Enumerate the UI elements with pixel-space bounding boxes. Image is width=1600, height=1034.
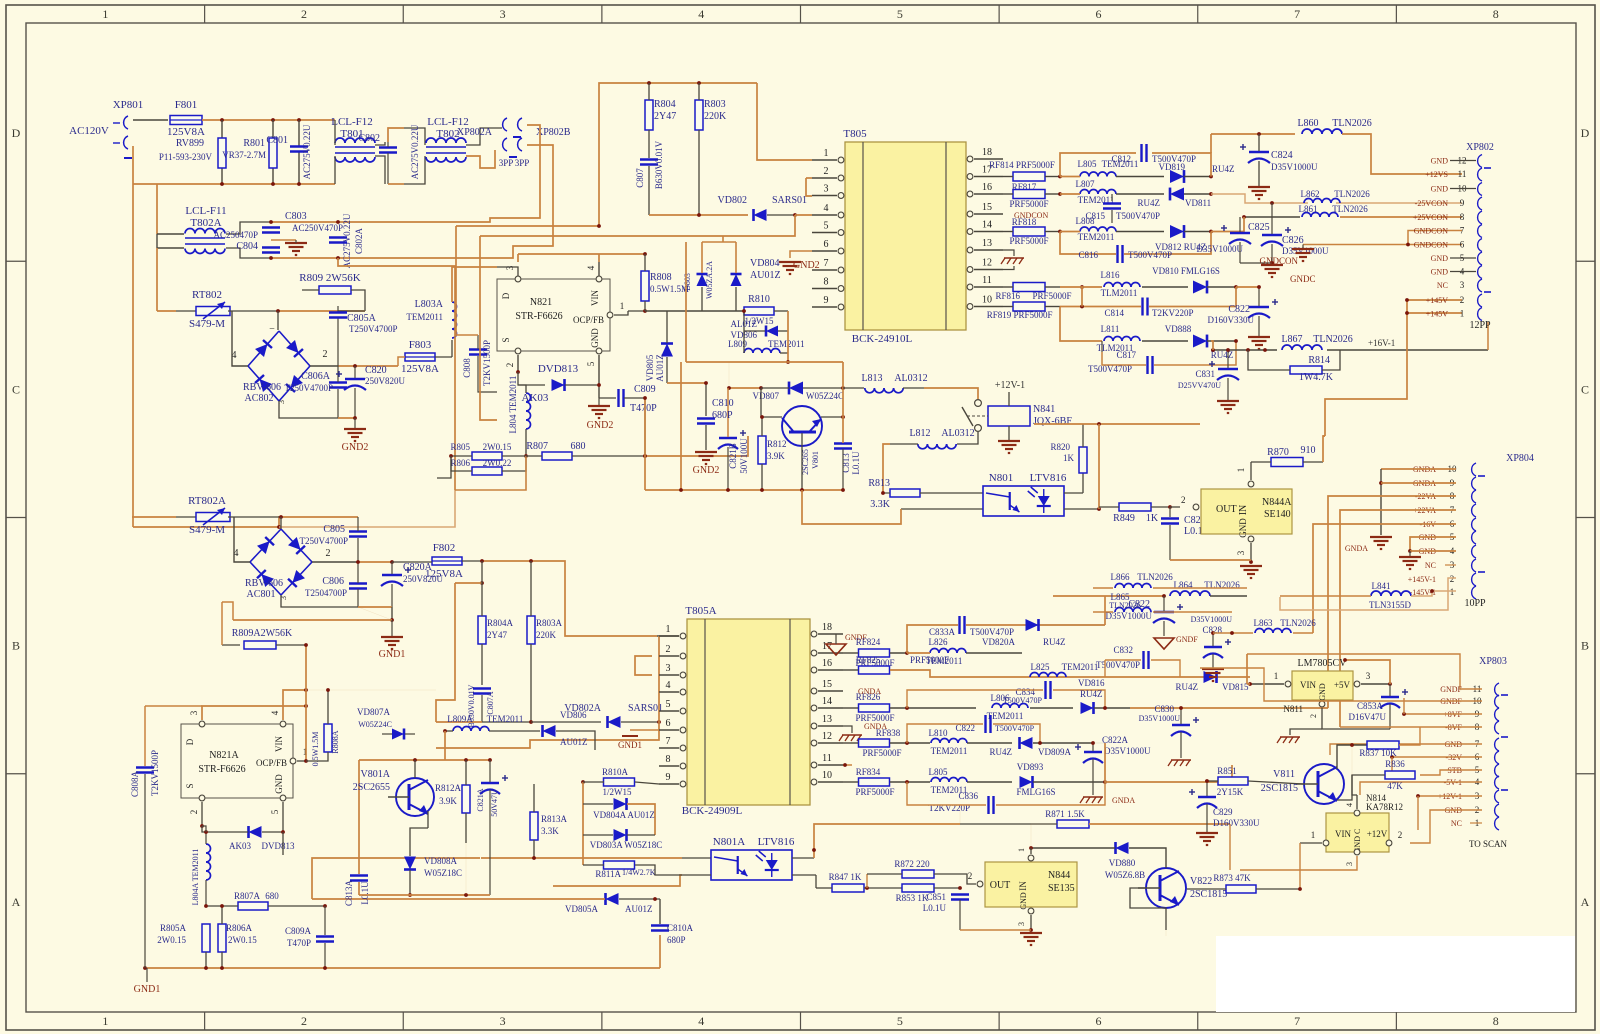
svg-text:D: D bbox=[1581, 126, 1590, 140]
svg-text:T500V470P: T500V470P bbox=[1128, 250, 1172, 260]
svg-text:VD802: VD802 bbox=[718, 195, 747, 206]
svg-text:OUT: OUT bbox=[990, 880, 1011, 891]
wire bbox=[1361, 682, 1392, 686]
junction bbox=[1080, 285, 1084, 289]
inductor L807 bbox=[1060, 179, 1164, 205]
svg-text:RU4Z: RU4Z bbox=[1212, 164, 1235, 174]
capacitor C808 bbox=[455, 335, 497, 392]
svg-text:PRF5000F: PRF5000F bbox=[1009, 236, 1048, 246]
wire bbox=[283, 688, 308, 720]
ground bbox=[285, 240, 307, 255]
svg-text:TEM2011: TEM2011 bbox=[508, 376, 518, 413]
svg-text:VD888: VD888 bbox=[1165, 324, 1192, 334]
wire bbox=[133, 119, 168, 121]
svg-text:V801: V801 bbox=[811, 451, 820, 469]
svg-text:GND2: GND2 bbox=[342, 442, 369, 453]
wire bbox=[277, 311, 279, 330]
svg-text:2: 2 bbox=[505, 363, 515, 368]
svg-text:N844: N844 bbox=[1048, 870, 1070, 881]
wire bbox=[234, 517, 250, 562]
wire bbox=[645, 310, 744, 312]
svg-text:LM7805CV: LM7805CV bbox=[1298, 658, 1348, 669]
svg-text:VD804: VD804 bbox=[750, 258, 779, 269]
svg-text:XP801: XP801 bbox=[113, 99, 144, 111]
svg-text:16: 16 bbox=[822, 658, 832, 669]
svg-text:6: 6 bbox=[1095, 7, 1101, 21]
junction bbox=[279, 515, 283, 519]
svg-text:R804: R804 bbox=[654, 99, 676, 110]
diode VD804A bbox=[583, 798, 655, 835]
svg-text:L863: L863 bbox=[1254, 618, 1273, 628]
diode VD893 bbox=[1016, 762, 1106, 797]
wire bbox=[1323, 436, 1325, 462]
inductor L805A bbox=[929, 767, 1013, 795]
diode VD811 bbox=[1138, 188, 1212, 208]
svg-text:8: 8 bbox=[824, 277, 829, 288]
wire bbox=[702, 236, 736, 242]
transistor V822 bbox=[1138, 868, 1227, 908]
svg-text:L805: L805 bbox=[929, 767, 948, 777]
resistor R809A bbox=[222, 628, 308, 649]
svg-text:AU01Z: AU01Z bbox=[625, 904, 653, 914]
svg-text:2W0.15: 2W0.15 bbox=[157, 935, 186, 945]
resistor R811A bbox=[583, 861, 682, 879]
junction bbox=[269, 220, 340, 260]
junction bbox=[597, 224, 601, 228]
svg-text:AU01Z: AU01Z bbox=[560, 737, 588, 747]
svg-text:5: 5 bbox=[897, 7, 903, 21]
wire bbox=[1351, 745, 1353, 775]
svg-text:GND: GND bbox=[1238, 518, 1248, 538]
svg-text:3: 3 bbox=[1236, 550, 1246, 555]
svg-text:T2KV1500P: T2KV1500P bbox=[150, 750, 160, 796]
svg-text:13: 13 bbox=[982, 238, 992, 249]
varistor RV899 bbox=[159, 138, 226, 168]
svg-text:R806A: R806A bbox=[226, 923, 253, 933]
ground GND2 bbox=[693, 452, 720, 476]
wire bbox=[1277, 708, 1390, 743]
svg-text:4: 4 bbox=[666, 680, 671, 691]
junction bbox=[220, 182, 301, 186]
svg-text:D160V330U: D160V330U bbox=[1213, 818, 1260, 828]
svg-text:PRF5000F: PRF5000F bbox=[855, 787, 894, 797]
wire bbox=[1340, 510, 1456, 727]
svg-text:1: 1 bbox=[620, 301, 625, 311]
wire bbox=[1200, 668, 1482, 701]
wire bbox=[802, 490, 983, 524]
capacitor C801 bbox=[266, 124, 312, 179]
wire bbox=[1210, 134, 1212, 153]
svg-text:OCP/FB: OCP/FB bbox=[256, 758, 287, 768]
capacitor C806 bbox=[305, 562, 367, 607]
svg-text:R870: R870 bbox=[1267, 447, 1289, 458]
svg-text:XP802B: XP802B bbox=[536, 127, 571, 138]
svg-text:L805: L805 bbox=[1078, 159, 1097, 169]
junction bbox=[1234, 285, 1238, 289]
svg-text:2SC2655: 2SC2655 bbox=[353, 782, 390, 793]
resistor R870 bbox=[1251, 445, 1323, 467]
junction bbox=[277, 525, 281, 529]
svg-text:GNDA: GNDA bbox=[858, 687, 881, 696]
svg-text:RF824: RF824 bbox=[856, 637, 881, 647]
wire bbox=[1130, 707, 1328, 709]
wire bbox=[598, 355, 600, 398]
wire bbox=[157, 310, 198, 312]
wire bbox=[816, 874, 867, 888]
svg-text:S: S bbox=[185, 783, 195, 788]
svg-text:GND: GND bbox=[590, 328, 600, 348]
junction bbox=[742, 309, 746, 313]
svg-text:PRF5000F: PRF5000F bbox=[910, 655, 949, 665]
resistor R808A bbox=[306, 688, 340, 766]
inductor L865 bbox=[1093, 592, 1232, 612]
svg-text:LCL-F11: LCL-F11 bbox=[185, 205, 226, 217]
svg-text:TLN2026: TLN2026 bbox=[1109, 601, 1141, 610]
svg-text:SE135: SE135 bbox=[1048, 883, 1075, 894]
wire bbox=[452, 267, 518, 302]
svg-text:R801: R801 bbox=[243, 138, 265, 149]
svg-text:VD804A AU01Z: VD804A AU01Z bbox=[593, 810, 655, 820]
label GNDA pin15 bbox=[858, 687, 881, 696]
inductor L812 bbox=[883, 428, 978, 493]
svg-text:2: 2 bbox=[301, 1014, 307, 1028]
wire bbox=[1098, 424, 1100, 509]
wire bbox=[232, 311, 248, 366]
resistor R805A bbox=[157, 923, 210, 968]
resistor R849 bbox=[1099, 503, 1170, 524]
label GNDCON pin15 bbox=[1014, 211, 1048, 220]
svg-text:N821A: N821A bbox=[209, 750, 239, 761]
wire bbox=[133, 516, 279, 527]
svg-text:N811: N811 bbox=[1283, 704, 1303, 714]
svg-text:14: 14 bbox=[982, 220, 992, 231]
wire bbox=[1337, 743, 1367, 769]
junction bbox=[204, 904, 327, 908]
svg-text:15: 15 bbox=[822, 679, 832, 690]
resistor R806 bbox=[450, 456, 526, 475]
cap C829 bbox=[1189, 779, 1260, 845]
svg-text:PRF5000F: PRF5000F bbox=[862, 748, 901, 758]
svg-text:PRF5000F: PRF5000F bbox=[1013, 310, 1052, 320]
wire R809A right bbox=[305, 645, 307, 690]
svg-text:17: 17 bbox=[822, 641, 832, 652]
capacitor C813 bbox=[834, 362, 861, 490]
svg-text:IN: IN bbox=[1238, 505, 1249, 516]
svg-text:3: 3 bbox=[824, 184, 829, 195]
junction bbox=[449, 454, 453, 458]
svg-text:C822: C822 bbox=[1228, 304, 1250, 315]
capacitor C803 bbox=[262, 211, 343, 233]
resistor R836 bbox=[1337, 759, 1415, 800]
svg-text:C808: C808 bbox=[462, 358, 472, 378]
svg-text:D35V1000U: D35V1000U bbox=[1271, 162, 1318, 172]
capacitor C810 bbox=[697, 383, 734, 450]
svg-text:C833A: C833A bbox=[929, 627, 956, 637]
wire bbox=[482, 720, 601, 724]
svg-text:RF816: RF816 bbox=[995, 291, 1020, 301]
resistor R812A bbox=[435, 760, 470, 843]
svg-text:C853A: C853A bbox=[1357, 701, 1384, 711]
resistor R809 bbox=[299, 272, 365, 311]
ground GND2 bbox=[587, 398, 614, 431]
diode VD888 bbox=[1165, 324, 1236, 360]
svg-text:R836: R836 bbox=[1385, 759, 1405, 769]
resistor R812 bbox=[758, 415, 787, 490]
svg-text:RF819: RF819 bbox=[987, 310, 1012, 320]
svg-text:AL01Z: AL01Z bbox=[731, 319, 758, 329]
inductor L841 bbox=[1280, 581, 1456, 610]
resistor RF819 bbox=[987, 302, 1060, 320]
svg-text:RT802A: RT802A bbox=[188, 495, 226, 507]
IC N821 STR-F6626 bbox=[497, 265, 624, 367]
svg-text:C808A: C808A bbox=[130, 771, 140, 798]
svg-text:SE140: SE140 bbox=[1264, 509, 1291, 520]
svg-text:50V47U: 50V47U bbox=[490, 789, 499, 817]
svg-text:1K: 1K bbox=[1146, 513, 1159, 524]
svg-text:OCP/FB: OCP/FB bbox=[573, 315, 604, 325]
svg-text:B: B bbox=[1581, 639, 1589, 653]
svg-text:L0.1U: L0.1U bbox=[923, 903, 947, 913]
resistor RF824 bbox=[843, 637, 909, 668]
svg-text:SARS01: SARS01 bbox=[628, 703, 663, 714]
svg-text:1: 1 bbox=[1450, 587, 1455, 597]
svg-text:7: 7 bbox=[824, 258, 829, 269]
cap C820A polarized bbox=[381, 562, 443, 620]
wire bbox=[338, 125, 540, 222]
svg-text:2: 2 bbox=[824, 166, 829, 177]
wire bbox=[1381, 482, 1456, 484]
svg-text:8: 8 bbox=[1493, 1014, 1499, 1028]
diode VD880 bbox=[1029, 842, 1166, 880]
svg-text:PRF5000F: PRF5000F bbox=[1032, 291, 1071, 301]
wire bbox=[312, 561, 392, 563]
wire bbox=[338, 258, 455, 286]
wire bottom bus bbox=[133, 183, 335, 185]
wire bbox=[202, 704, 308, 720]
svg-text:VR37-2.7M: VR37-2.7M bbox=[222, 150, 266, 160]
wire bbox=[792, 824, 960, 858]
capacitor C808A bbox=[130, 706, 202, 826]
svg-text:TEM2011: TEM2011 bbox=[987, 711, 1024, 721]
svg-text:TLN2026: TLN2026 bbox=[1332, 118, 1371, 129]
svg-text:D35V1000U: D35V1000U bbox=[1197, 244, 1244, 254]
wire bbox=[466, 128, 502, 145]
wire bbox=[480, 215, 795, 236]
wire bbox=[222, 602, 233, 645]
svg-text:T500V470P: T500V470P bbox=[970, 627, 1014, 637]
capacitor C822y bbox=[1106, 596, 1184, 636]
svg-text:AC250470P: AC250470P bbox=[213, 230, 258, 240]
svg-text:W05Z24C: W05Z24C bbox=[358, 720, 392, 729]
svg-text:R871 1.5K: R871 1.5K bbox=[1045, 809, 1085, 819]
choke T802A LCL-F11 bbox=[185, 205, 227, 254]
capacitor C830 bbox=[1139, 704, 1199, 766]
svg-text:D: D bbox=[12, 126, 21, 140]
wire bbox=[659, 935, 661, 968]
svg-text:T805: T805 bbox=[843, 128, 867, 140]
svg-text:GNDCON: GNDCON bbox=[1414, 241, 1448, 250]
junction bbox=[697, 213, 701, 217]
svg-text:3: 3 bbox=[505, 265, 515, 270]
svg-text:RF834: RF834 bbox=[856, 767, 881, 777]
wire bbox=[226, 248, 338, 258]
wire bbox=[228, 310, 365, 312]
junction bbox=[1242, 201, 1274, 219]
svg-text:XP802: XP802 bbox=[1466, 142, 1494, 153]
wire bbox=[466, 150, 495, 168]
svg-text:R812: R812 bbox=[767, 439, 787, 449]
wire bbox=[1420, 770, 1482, 775]
wire bbox=[437, 456, 451, 478]
svg-text:L804A TEM2011: L804A TEM2011 bbox=[191, 849, 200, 906]
wire bbox=[960, 930, 1042, 945]
svg-text:C802A: C802A bbox=[354, 228, 364, 255]
svg-text:RV899: RV899 bbox=[176, 138, 204, 149]
diode VD803 bbox=[683, 242, 714, 311]
wire pin1 bbox=[658, 635, 660, 637]
wire bbox=[298, 120, 300, 184]
capacitor C822A bbox=[1075, 735, 1151, 795]
svg-text:D: D bbox=[185, 738, 195, 745]
svg-text:2W0.15: 2W0.15 bbox=[483, 442, 512, 452]
diode VD809A bbox=[990, 737, 1094, 757]
wire bbox=[582, 782, 584, 865]
junction bbox=[480, 559, 533, 585]
svg-text:TLN2026: TLN2026 bbox=[1332, 204, 1368, 214]
svg-text:R853 1K: R853 1K bbox=[896, 893, 929, 903]
svg-text:4: 4 bbox=[698, 1014, 704, 1028]
svg-text:1: 1 bbox=[1460, 309, 1465, 319]
svg-text:XP804: XP804 bbox=[1506, 453, 1534, 464]
svg-text:VD807: VD807 bbox=[753, 391, 780, 401]
wire bbox=[1247, 654, 1460, 689]
wire bbox=[1130, 888, 1166, 930]
diode VD810 bbox=[1152, 266, 1236, 293]
ground GND2 bbox=[779, 251, 820, 274]
svg-text:VD810 FMLG16S: VD810 FMLG16S bbox=[1152, 266, 1220, 276]
svg-text:250V820U: 250V820U bbox=[365, 376, 405, 386]
ground GNDA pin13 bbox=[839, 722, 887, 741]
junction bbox=[1209, 175, 1213, 179]
svg-text:T250V4700P: T250V4700P bbox=[349, 324, 398, 334]
resistor R808 bbox=[641, 254, 689, 311]
wire brown row bbox=[553, 875, 711, 886]
capacitor C806A bbox=[284, 366, 347, 402]
junction bbox=[1211, 348, 1267, 352]
svg-text:C: C bbox=[1581, 382, 1589, 396]
wire bbox=[455, 456, 526, 490]
svg-text:GND: GND bbox=[1019, 892, 1028, 910]
svg-text:TLN2026: TLN2026 bbox=[1280, 618, 1316, 628]
svg-text:L866: L866 bbox=[1111, 572, 1130, 582]
svg-text:2Y47: 2Y47 bbox=[487, 630, 507, 640]
svg-text:L0.1U: L0.1U bbox=[851, 451, 861, 475]
svg-text:VD816: VD816 bbox=[1078, 678, 1105, 688]
svg-text:4: 4 bbox=[270, 710, 280, 715]
wire bbox=[1330, 744, 1482, 755]
wire bbox=[1034, 423, 1200, 425]
svg-text:C810A: C810A bbox=[667, 923, 694, 933]
svg-text:L816: L816 bbox=[1101, 270, 1120, 280]
diode VD816 bbox=[1078, 678, 1130, 714]
svg-text:GND: GND bbox=[1431, 268, 1449, 277]
resistor R873 bbox=[1187, 873, 1302, 893]
svg-text:D35V1000U: D35V1000U bbox=[1282, 246, 1329, 256]
resistor RF817 bbox=[989, 160, 1060, 192]
svg-text:C851: C851 bbox=[926, 892, 946, 902]
resistor RF818 bbox=[1003, 217, 1060, 246]
svg-text:13: 13 bbox=[822, 714, 832, 725]
wire bbox=[228, 516, 358, 518]
resistor RF825 bbox=[843, 655, 1250, 677]
connector XP801 bbox=[69, 99, 143, 158]
svg-text:AL0312: AL0312 bbox=[941, 428, 974, 439]
wire 25vcon bbox=[1211, 194, 1462, 203]
capacitor C807A bbox=[467, 684, 495, 727]
capacitor C815 bbox=[1085, 194, 1160, 223]
svg-text:A: A bbox=[1581, 895, 1590, 909]
connector XP802A bbox=[457, 118, 517, 168]
diode VD819 bbox=[1159, 162, 1235, 183]
svg-text:C: C bbox=[12, 382, 20, 396]
diode VD803A bbox=[583, 829, 662, 850]
svg-text:LTV816: LTV816 bbox=[1030, 472, 1067, 484]
svg-text:C821B: C821B bbox=[728, 443, 738, 469]
resistor RF834 bbox=[843, 767, 930, 797]
capacitor C814 bbox=[1104, 298, 1193, 319]
diode DVD813 bbox=[518, 363, 599, 404]
wire bbox=[482, 561, 679, 636]
svg-text:VD805A: VD805A bbox=[565, 904, 598, 914]
resistor R853 bbox=[896, 871, 973, 903]
wire bbox=[659, 899, 661, 924]
svg-text:AC275V0.22U: AC275V0.22U bbox=[302, 124, 312, 179]
svg-text:4: 4 bbox=[824, 203, 829, 214]
junction bbox=[1097, 422, 1101, 426]
capacitor C802 bbox=[358, 133, 397, 184]
svg-text:XP803: XP803 bbox=[1479, 656, 1507, 667]
svg-text:2SC1815: 2SC1815 bbox=[1261, 783, 1298, 794]
svg-text:C806A: C806A bbox=[301, 371, 331, 382]
svg-text:VD809A: VD809A bbox=[1038, 747, 1071, 757]
wire bbox=[338, 145, 553, 258]
svg-text:4: 4 bbox=[698, 7, 704, 21]
svg-text:VD880: VD880 bbox=[1109, 858, 1136, 868]
svg-text:C821A: C821A bbox=[476, 788, 485, 811]
svg-text:2Y15K: 2Y15K bbox=[1217, 787, 1244, 797]
capacitor C823 bbox=[1161, 507, 1211, 560]
resistor R807A bbox=[206, 891, 325, 910]
wire bbox=[480, 236, 497, 420]
svg-text:9: 9 bbox=[824, 295, 829, 306]
svg-text:IN: IN bbox=[1018, 881, 1028, 891]
capacitor C807 bbox=[635, 140, 664, 215]
svg-text:AC801: AC801 bbox=[247, 589, 276, 600]
connector XP802 bbox=[1413, 142, 1494, 331]
svg-text:14: 14 bbox=[822, 696, 832, 707]
wire bbox=[1390, 755, 1482, 775]
wire bbox=[1053, 594, 1166, 625]
resistor RF838 bbox=[843, 728, 930, 758]
wire bbox=[1236, 285, 1261, 289]
choke T802 LCL-F12 bbox=[410, 116, 469, 179]
svg-text:1: 1 bbox=[1017, 848, 1026, 852]
cap C831 bbox=[1178, 348, 1239, 413]
IC N821A STR-F6626 bbox=[181, 710, 307, 814]
inductor L862 bbox=[1301, 189, 1371, 203]
wire nc bbox=[1470, 822, 1482, 824]
svg-text:T250V4700P: T250V4700P bbox=[284, 383, 333, 393]
